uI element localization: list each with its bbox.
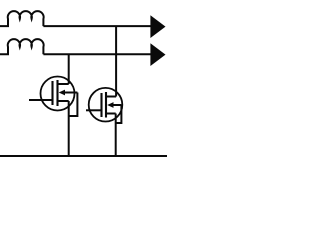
Q1 drain stub [58,83,69,85]
Q2 channel bar [105,92,107,118]
Q1 channel bar [56,80,58,106]
transistor Q2 (right MOSFET) [86,88,122,123]
Q1 body stub [64,92,77,94]
Q2 body-source loop [116,105,122,123]
Q1 source stub [58,100,69,102]
Q2 body arrow [107,102,113,108]
Q1 gate bar [51,81,53,105]
Q1 gate lead [29,99,53,101]
Q2 gate bar [100,93,102,117]
Q1 body-source loop [69,93,78,117]
arrow output 1 [150,15,165,38]
transistor Q1 (left MOSFET) [29,77,77,117]
inductor L1 [0,11,44,26]
wire drain Q2 vertical from line1 [115,26,117,96]
Q2 source stub [107,113,116,115]
Q2 gate lead [86,109,102,111]
Q1 body arrow [59,90,65,96]
inductor L2 [0,39,44,54]
Q2 drain stub [107,96,117,98]
wire source Q2 to rail [115,114,117,157]
wire line2 L2 to arrow2 [43,53,151,55]
wire source Q1 to rail [68,101,70,156]
arrow output 2 [150,43,165,66]
wire drain Q1 vertical from line2 [68,54,70,84]
wire line1 L1 to arrow1 [43,25,151,27]
Q2 circle [89,88,123,122]
Q2 body stub [113,104,122,106]
ground rail [0,155,167,157]
Q1 circle [41,77,75,111]
